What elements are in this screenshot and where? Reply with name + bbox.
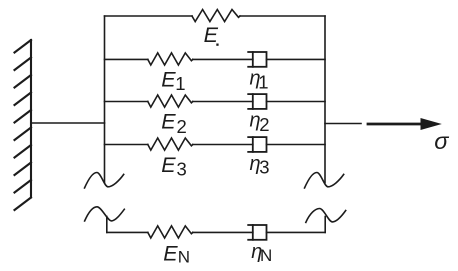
right bus [324,16,326,183]
svg-text:3: 3 [177,159,187,180]
svg-text:1: 1 [175,73,185,94]
wire wall to left bus [31,122,105,124]
svg-text:E: E [163,241,178,265]
svg-text:σ: σ [434,128,449,154]
sigma stub wire [325,123,361,125]
wire top left [105,15,193,17]
wall [15,40,32,210]
stub bottom-right [324,217,326,233]
wire rowN left [107,231,148,233]
spring E2 [148,95,193,107]
spring E (top) [192,10,240,22]
dashpot etaN [248,225,266,240]
break squiggle left bus [85,173,124,189]
dashpot eta3 [248,137,266,152]
svg-text:E: E [204,23,219,47]
svg-text:3: 3 [259,157,269,178]
svg-text:1: 1 [258,71,268,92]
dashpot eta1 [248,52,266,67]
left bus [104,16,106,183]
wire row2 mid [193,101,253,103]
wire row1 left [105,58,148,60]
wire rowN right [267,231,326,233]
svg-text:E: E [161,68,176,92]
wire row2 left [105,101,148,103]
wire row1 right [267,58,326,60]
sigma arrow head [421,118,442,130]
wire top right [240,15,325,17]
dashpot eta2 [248,94,266,109]
wire rowN mid [193,231,253,233]
spring E1 [148,53,193,65]
stub bottom-left [106,217,108,233]
wire row3 right [267,144,326,146]
svg-text:E: E [161,153,176,177]
svg-text:2: 2 [177,116,187,137]
wire row3 mid [193,144,253,146]
sigma arrow shaft [368,123,427,126]
break squiggle bottom-left [85,207,125,221]
wire row3 left [105,144,148,146]
svg-text:N: N [260,246,272,265]
svg-text:2: 2 [259,114,269,135]
spring E3 [148,138,193,150]
svg-text:E: E [161,110,176,134]
break squiggle bottom-right [306,209,346,223]
svg-text:N: N [178,247,190,266]
spring EN [148,226,193,238]
break squiggle right bus [305,173,344,189]
wire row2 right [267,101,326,103]
wire row1 mid [193,58,253,60]
